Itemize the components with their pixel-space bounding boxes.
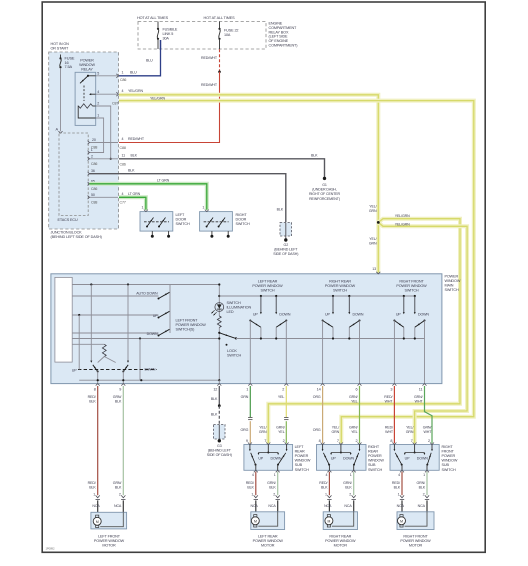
svg-text:2: 2 — [97, 102, 99, 106]
svg-text:AUTO DOWN: AUTO DOWN — [136, 292, 158, 296]
svg-text:(BEHIND LEFT SIDE OF DASH): (BEHIND LEFT SIDE OF DASH) — [51, 235, 103, 239]
svg-text:2: 2 — [91, 154, 93, 158]
svg-text:LEFT REAR: LEFT REAR — [258, 279, 278, 283]
svg-text:UP: UP — [253, 312, 258, 316]
svg-text:8: 8 — [94, 388, 96, 392]
bottom rail — [79, 379, 219, 381]
svg-text:BLK: BLK — [128, 168, 135, 172]
svg-text:GRN/: GRN/ — [416, 481, 425, 485]
svg-text:GRN: GRN — [369, 242, 377, 246]
junction RED/WHT — [218, 71, 221, 74]
svg-text:C77: C77 — [120, 201, 126, 205]
svg-text:REAR: REAR — [295, 450, 305, 454]
svg-text:BLK: BLK — [89, 399, 96, 403]
svg-text:GRN/: GRN/ — [349, 426, 358, 430]
svg-text:LEFT FRONT: LEFT FRONT — [98, 534, 121, 538]
svg-text:C88: C88 — [91, 145, 97, 149]
wire fuse 16 to ETACS pin A — [60, 68, 62, 131]
svg-text:YEL/: YEL/ — [406, 426, 413, 430]
svg-text:FRONT: FRONT — [442, 450, 455, 454]
fuse 22 — [219, 22, 221, 29]
left front fixed feeds — [90, 285, 92, 362]
svg-text:ENGINE: ENGINE — [269, 22, 283, 26]
svg-text:SWITCH: SWITCH — [333, 288, 347, 292]
svg-text:UP: UP — [325, 312, 330, 316]
svg-text:C86: C86 — [120, 162, 126, 166]
svg-text:BLU: BLU — [130, 71, 137, 75]
svg-text:9: 9 — [119, 388, 121, 392]
svg-text:5: 5 — [97, 72, 99, 76]
svg-text:9: 9 — [246, 439, 248, 443]
svg-text:UP: UP — [396, 312, 401, 316]
svg-text:(UNDER DASH,: (UNDER DASH, — [312, 188, 337, 192]
wire relay pin1 to ETACS pin 1 — [89, 118, 103, 153]
svg-text:C88: C88 — [91, 201, 97, 205]
wire YEL/GRN upper bus — [119, 95, 378, 273]
svg-text:1: 1 — [97, 114, 99, 118]
svg-text:RIGHT FRONT: RIGHT FRONT — [403, 534, 428, 538]
svg-text:10A: 10A — [224, 33, 231, 37]
svg-text:DOWN: DOWN — [418, 312, 429, 316]
left rear sub switch — [244, 445, 293, 471]
wire YEL/GRN lower bus — [119, 101, 474, 444]
svg-text:YEL/GRN: YEL/GRN — [395, 214, 410, 218]
svg-text:RIGHT: RIGHT — [368, 445, 380, 449]
svg-text:MAIN: MAIN — [445, 284, 454, 288]
wire GRN/WHT pin 11 to right front sub switch — [425, 386, 433, 443]
svg-text:SWITCH: SWITCH — [404, 288, 418, 292]
svg-text:NCA: NCA — [92, 504, 100, 508]
svg-text:ORG: ORG — [313, 395, 321, 399]
svg-text:YEL/: YEL/ — [369, 237, 376, 241]
right front power window motor — [397, 512, 434, 530]
svg-text:POWER WINDOW: POWER WINDOW — [252, 284, 283, 288]
svg-text:SUB: SUB — [442, 463, 450, 467]
svg-text:YEL/: YEL/ — [332, 426, 339, 430]
svg-text:RED/: RED/ — [319, 481, 327, 485]
svg-text:YEL/GRN: YEL/GRN — [128, 89, 143, 93]
svg-text:ILLUMINATION: ILLUMINATION — [227, 306, 252, 310]
svg-text:C87: C87 — [112, 102, 118, 106]
wire ORG pin 14 to right rear sub switch — [322, 386, 324, 443]
ground G2 — [284, 238, 287, 241]
svg-text:DOOR: DOOR — [176, 218, 187, 222]
left front resistor — [102, 344, 106, 356]
svg-text:ORG: ORG — [313, 428, 321, 432]
svg-text:M: M — [328, 519, 331, 523]
right rear sub switch — [317, 445, 367, 471]
svg-text:7: 7 — [411, 439, 413, 443]
svg-text:COMPARTMENT: COMPARTMENT — [269, 26, 298, 30]
svg-text:LED: LED — [227, 310, 234, 314]
right rear power window motor — [323, 512, 357, 530]
relay linkage (dashed) — [83, 86, 85, 102]
svg-text:7.5A: 7.5A — [65, 64, 73, 69]
svg-text:UP: UP — [331, 456, 336, 460]
svg-text:1: 1 — [202, 206, 204, 210]
svg-text:LT GRN: LT GRN — [157, 179, 170, 183]
wire LT GRN pin 65 to right door switch — [89, 184, 206, 210]
fusible link 5 — [157, 22, 159, 29]
svg-text:SWITCH: SWITCH — [295, 468, 309, 472]
svg-text:SWITCH(S): SWITCH(S) — [176, 328, 196, 332]
svg-text:7: 7 — [264, 439, 266, 443]
svg-text:4: 4 — [398, 473, 400, 477]
svg-text:RELAY BOX: RELAY BOX — [269, 30, 289, 34]
svg-text:(BEHIND LEFT: (BEHIND LEFT — [274, 248, 298, 252]
pin 12 stub — [218, 380, 220, 383]
relay fixed contact pin 4 — [90, 93, 96, 95]
wire relay pin5 to JB pin 1 — [96, 75, 118, 77]
engine compartment relay box — [138, 22, 266, 50]
svg-text:POWER WINDOW: POWER WINDOW — [253, 539, 284, 543]
svg-text:DOWN: DOWN — [271, 456, 282, 460]
wire BLK main switch pin 12 to ground G3 — [218, 386, 220, 405]
svg-text:SIDE OF DASH): SIDE OF DASH) — [207, 453, 232, 457]
svg-text:1: 1 — [325, 492, 327, 496]
wire RED/WHT pin 3 to right front sub switch — [393, 386, 395, 443]
svg-text:50: 50 — [91, 193, 95, 197]
svg-text:1: 1 — [398, 492, 400, 496]
svg-text:POWER: POWER — [442, 454, 456, 458]
svg-text:JUNCTION BLOCK: JUNCTION BLOCK — [51, 231, 83, 235]
svg-text:RIGHT REAR: RIGHT REAR — [329, 534, 351, 538]
svg-text:2: 2 — [423, 492, 425, 496]
svg-text:OF ENGINE: OF ENGINE — [269, 39, 289, 43]
svg-text:POWER: POWER — [445, 275, 459, 279]
svg-text:POWER WINDOW: POWER WINDOW — [325, 539, 356, 543]
junction block — [49, 52, 119, 229]
ground G1 — [323, 177, 326, 180]
svg-text:SWITCH: SWITCH — [176, 222, 190, 226]
svg-text:DOWN: DOWN — [279, 312, 290, 316]
svg-text:C86: C86 — [91, 162, 97, 166]
resistor rail — [72, 343, 104, 345]
svg-text:WINDOW: WINDOW — [442, 459, 458, 463]
svg-text:POWER WINDOW: POWER WINDOW — [400, 539, 431, 543]
svg-text:LEFT: LEFT — [295, 445, 305, 449]
svg-text:RED/WHT: RED/WHT — [201, 83, 218, 87]
svg-text:NCA: NCA — [344, 504, 352, 508]
svg-text:12: 12 — [213, 388, 217, 392]
svg-text:SUB: SUB — [295, 463, 303, 467]
svg-text:YEL/: YEL/ — [259, 426, 266, 430]
svg-text:BLK: BLK — [269, 485, 276, 489]
svg-text:YEL/GRN: YEL/GRN — [395, 223, 410, 227]
svg-text:REINFORCEMENT): REINFORCEMENT) — [309, 197, 340, 201]
svg-text:DOWN: DOWN — [417, 456, 428, 460]
ETACS pin 50 wire — [89, 196, 118, 198]
svg-text:LEFT FRONT: LEFT FRONT — [176, 319, 199, 323]
fuse 16 — [60, 55, 62, 58]
svg-text:RED/: RED/ — [88, 481, 96, 485]
svg-text:FUSE 22: FUSE 22 — [224, 29, 238, 33]
svg-text:POWER WINDOW: POWER WINDOW — [396, 284, 427, 288]
svg-text:LINK 5: LINK 5 — [163, 32, 174, 36]
connector C-22 — [280, 223, 292, 237]
ETACS pin 65 — [88, 182, 90, 186]
svg-text:2: 2 — [349, 492, 351, 496]
svg-text:FUSIBLE: FUSIBLE — [163, 28, 178, 32]
svg-text:2: 2 — [282, 388, 284, 392]
svg-text:WHT: WHT — [423, 430, 432, 434]
relay coil return to pin 1 — [78, 106, 96, 118]
left front power window motor — [91, 512, 127, 529]
svg-text:RED/: RED/ — [392, 481, 400, 485]
wire RED/BLK left front — [97, 386, 99, 495]
rail C to bottom rail link — [139, 339, 141, 381]
svg-text:(LEFT SIDE: (LEFT SIDE — [269, 35, 289, 39]
wire YEL/GRN branch to right front sub switch — [378, 222, 467, 443]
svg-text:RIGHT FRONT: RIGHT FRONT — [399, 279, 424, 283]
svg-text:BLK: BLK — [115, 399, 122, 403]
svg-text:POWER: POWER — [80, 59, 94, 63]
wire BLU — [119, 40, 161, 76]
svg-text:GRN: GRN — [259, 430, 267, 434]
svg-text:1: 1 — [423, 473, 425, 477]
svg-text:4: 4 — [122, 137, 124, 141]
svg-text:SWITCH: SWITCH — [236, 222, 250, 226]
ETACS pin 36 — [88, 172, 90, 176]
svg-text:YEL/GRN: YEL/GRN — [150, 96, 165, 100]
svg-text:RIGHT OF CENTER: RIGHT OF CENTER — [309, 192, 341, 196]
rail C right segment — [236, 338, 425, 340]
svg-text:6: 6 — [356, 388, 358, 392]
wire GRN/YEL pin 6 to right rear sub switch — [359, 386, 361, 443]
svg-text:SUB: SUB — [368, 463, 376, 467]
svg-text:G2: G2 — [284, 243, 289, 247]
svg-text:M: M — [96, 520, 99, 524]
svg-text:RIGHT: RIGHT — [236, 213, 248, 217]
svg-text:G1: G1 — [322, 183, 327, 187]
right front motor wires — [401, 472, 403, 495]
svg-text:(BEHIND LEFT: (BEHIND LEFT — [208, 449, 232, 453]
right rear motor wires — [328, 472, 330, 495]
left front switch common — [169, 285, 171, 334]
svg-text:8: 8 — [390, 439, 392, 443]
svg-text:2: 2 — [356, 439, 358, 443]
svg-text:4: 4 — [252, 473, 254, 477]
left door switch — [140, 212, 173, 232]
svg-text:OR START: OR START — [51, 47, 69, 51]
svg-text:NCA: NCA — [114, 504, 122, 508]
svg-text:NCA: NCA — [268, 504, 276, 508]
svg-text:BLK: BLK — [394, 485, 401, 489]
svg-text:GRN: GRN — [331, 430, 339, 434]
svg-text:RIGHT REAR: RIGHT REAR — [329, 279, 351, 283]
svg-text:DOOR: DOOR — [236, 218, 247, 222]
svg-text:SWITCH: SWITCH — [442, 468, 456, 472]
rail C left segment — [72, 338, 219, 340]
svg-text:SWITCH: SWITCH — [260, 288, 274, 292]
svg-text:1: 1 — [142, 206, 144, 210]
svg-text:1P0892: 1P0892 — [46, 546, 55, 550]
switch illumination led — [215, 303, 224, 312]
svg-text:SWITCH: SWITCH — [368, 468, 382, 472]
svg-text:RED/: RED/ — [246, 481, 254, 485]
svg-text:RED/: RED/ — [88, 395, 96, 399]
svg-text:BLK: BLK — [89, 485, 96, 489]
wire RED/WHT down to JB pin 4 — [119, 72, 220, 143]
svg-text:SIDE OF DASH): SIDE OF DASH) — [273, 252, 298, 256]
svg-text:NCA: NCA — [324, 504, 332, 508]
main switch internal unit — [55, 277, 72, 362]
main switch pin 13 — [376, 272, 380, 274]
svg-text:BLK: BLK — [211, 397, 218, 401]
svg-text:4: 4 — [122, 89, 124, 93]
relay coil — [79, 104, 93, 108]
svg-text:1: 1 — [251, 492, 253, 496]
rail B sub switch feed — [219, 295, 414, 297]
svg-text:20: 20 — [92, 138, 96, 142]
svg-text:GRN/: GRN/ — [267, 481, 276, 485]
svg-text:30A: 30A — [163, 36, 170, 40]
svg-text:YEL: YEL — [351, 430, 358, 434]
ETACS pin 2 wire — [89, 158, 118, 160]
svg-text:SWITCH: SWITCH — [227, 354, 241, 358]
svg-text:2: 2 — [283, 439, 285, 443]
svg-text:2: 2 — [273, 492, 275, 496]
svg-text:NCA: NCA — [418, 504, 426, 508]
svg-text:13: 13 — [372, 267, 376, 271]
svg-text:COMPARTMENT): COMPARTMENT) — [269, 44, 299, 48]
left front moving contacts — [93, 365, 98, 372]
svg-text:DOWN: DOWN — [147, 332, 158, 336]
svg-text:LOCK: LOCK — [227, 349, 237, 353]
wire relay pin2 down to ETACS pin2 node — [96, 106, 111, 159]
svg-text:RIGHT: RIGHT — [442, 445, 454, 449]
svg-text:LEFT REAR: LEFT REAR — [258, 534, 278, 538]
svg-text:1: 1 — [246, 388, 248, 392]
svg-text:BLK: BLK — [211, 413, 218, 417]
right door switch — [200, 212, 233, 232]
svg-text:POWER WINDOW: POWER WINDOW — [325, 284, 356, 288]
svg-text:BLK: BLK — [311, 154, 318, 158]
wire LT GRN pin 50 to left door switch — [119, 197, 146, 210]
svg-text:GRN/: GRN/ — [276, 426, 285, 430]
svg-text:DOWN: DOWN — [353, 312, 364, 316]
svg-text:WHT: WHT — [385, 399, 394, 403]
svg-text:SWITCH: SWITCH — [445, 288, 459, 292]
svg-text:WINDOW: WINDOW — [79, 63, 95, 67]
wire GRN pin 1 to left rear sub switch — [249, 386, 251, 417]
svg-text:DOWN: DOWN — [145, 368, 156, 372]
wire relay pin4 to JB pin 4 — [96, 93, 118, 95]
svg-text:WINDOW: WINDOW — [445, 279, 461, 283]
svg-text:BLU: BLU — [146, 59, 153, 63]
svg-text:RED/WHT: RED/WHT — [201, 56, 218, 60]
svg-text:BLK: BLK — [115, 485, 122, 489]
wire BLK pin 36 to ground G2 — [89, 174, 285, 222]
ETACS ECU — [59, 133, 88, 216]
svg-text:WHT: WHT — [385, 430, 394, 434]
rail to down contact — [72, 332, 158, 334]
svg-text:14: 14 — [317, 388, 321, 392]
power window main switch — [51, 274, 442, 384]
svg-text:BLK: BLK — [419, 485, 426, 489]
connector C-23 — [214, 425, 226, 440]
svg-text:SWITCH: SWITCH — [227, 301, 241, 305]
svg-text:DOWN: DOWN — [343, 456, 354, 460]
svg-text:11: 11 — [419, 388, 423, 392]
main switch bottom pins — [96, 384, 100, 386]
svg-text:GRN/: GRN/ — [349, 395, 358, 399]
svg-text:GRN/: GRN/ — [113, 395, 122, 399]
svg-text:UP: UP — [405, 456, 410, 460]
svg-text:GRN: GRN — [406, 430, 414, 434]
wire BLK pin 11 to ground G1 — [119, 159, 325, 177]
svg-text:1: 1 — [93, 492, 95, 496]
svg-text:7: 7 — [337, 439, 339, 443]
svg-text:GRN/: GRN/ — [343, 481, 352, 485]
rail to auto down contact — [72, 295, 158, 297]
svg-text:YEL: YEL — [278, 395, 285, 399]
ETACS pin 20 wire — [89, 142, 118, 144]
led feed — [218, 285, 220, 317]
led resistor — [217, 316, 221, 328]
lock switch — [218, 328, 220, 381]
svg-text:YEL: YEL — [351, 399, 358, 403]
svg-text:POWER: POWER — [295, 454, 309, 458]
svg-text:3: 3 — [390, 388, 392, 392]
svg-text:BLK: BLK — [345, 485, 352, 489]
svg-text:4: 4 — [97, 90, 99, 94]
svg-text:HOT IN ON: HOT IN ON — [51, 42, 70, 46]
wire YEL/GRN branch to left rear sub switch — [268, 219, 460, 444]
svg-text:NCA: NCA — [250, 504, 258, 508]
rail to up contact — [72, 314, 158, 316]
svg-text:M: M — [254, 519, 257, 523]
svg-text:2: 2 — [428, 439, 430, 443]
svg-text:GRN: GRN — [241, 395, 249, 399]
junction YEL/GRN splice — [377, 221, 380, 224]
svg-text:11: 11 — [122, 154, 126, 158]
svg-text:POWER WINDOW: POWER WINDOW — [94, 539, 125, 543]
svg-text:ETACS ECU: ETACS ECU — [58, 218, 79, 222]
ground G3 — [218, 439, 221, 442]
wire YEL pin 2 to left rear sub switch — [285, 386, 287, 417]
left front linkage dashed — [78, 369, 157, 371]
wire RED/WHT from fuse 22 (dashed segment) — [219, 49, 221, 72]
svg-text:MOTOR: MOTOR — [409, 544, 423, 548]
svg-text:GRN: GRN — [369, 209, 377, 213]
wire GRN/BLK left front — [122, 386, 124, 495]
svg-text:WINDOW: WINDOW — [368, 459, 384, 463]
svg-text:1: 1 — [122, 71, 124, 75]
svg-text:C86: C86 — [91, 187, 97, 191]
left rear power window motor — [251, 512, 285, 530]
svg-text:BLK: BLK — [247, 485, 254, 489]
svg-text:UP: UP — [258, 456, 263, 460]
svg-text:UP: UP — [153, 314, 158, 318]
svg-text:RED/: RED/ — [385, 426, 393, 430]
svg-text:ORG: ORG — [240, 428, 248, 432]
svg-text:NCA: NCA — [397, 504, 405, 508]
svg-text:MOTOR: MOTOR — [334, 544, 348, 548]
rail A — [72, 284, 219, 286]
svg-text:RED/: RED/ — [384, 395, 392, 399]
svg-text:C86: C86 — [120, 78, 126, 82]
svg-text:GRN/: GRN/ — [414, 395, 423, 399]
svg-text:WINDOW: WINDOW — [295, 459, 311, 463]
svg-text:G3: G3 — [217, 444, 222, 448]
svg-text:C88: C88 — [120, 146, 126, 150]
svg-text:GRN/: GRN/ — [423, 426, 432, 430]
svg-text:POWER: POWER — [368, 454, 382, 458]
svg-text:UP: UP — [72, 368, 77, 372]
svg-text:YEL: YEL — [278, 430, 285, 434]
svg-text:1: 1 — [274, 473, 276, 477]
